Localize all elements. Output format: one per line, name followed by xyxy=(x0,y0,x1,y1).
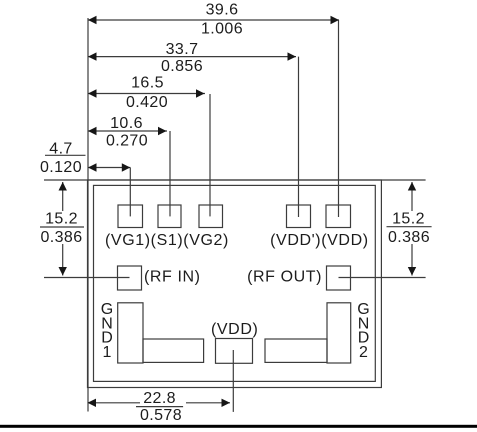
svg-text:33.7: 33.7 xyxy=(166,41,199,58)
svg-text:0.856: 0.856 xyxy=(161,58,203,75)
svg-text:0.578: 0.578 xyxy=(140,407,182,424)
svg-text:15.2: 15.2 xyxy=(392,211,425,228)
svg-text:15.2: 15.2 xyxy=(45,211,78,228)
svg-text:0.120: 0.120 xyxy=(40,159,82,176)
svg-text:0.270: 0.270 xyxy=(106,132,148,149)
svg-text:39.6: 39.6 xyxy=(206,2,239,19)
svg-text:2: 2 xyxy=(359,344,369,361)
svg-text:0.386: 0.386 xyxy=(388,229,430,246)
svg-text:(VG1)(S1)(VG2): (VG1)(S1)(VG2) xyxy=(105,232,229,249)
svg-text:(VDD')(VDD): (VDD')(VDD) xyxy=(270,232,369,249)
svg-text:(RF OUT): (RF OUT) xyxy=(247,269,322,286)
svg-text:(VDD): (VDD) xyxy=(211,321,258,338)
svg-text:(RF IN): (RF IN) xyxy=(144,269,201,286)
svg-text:1.006: 1.006 xyxy=(201,21,243,38)
svg-text:4.7: 4.7 xyxy=(49,140,72,157)
svg-text:1: 1 xyxy=(103,344,113,361)
svg-text:10.6: 10.6 xyxy=(110,115,143,132)
svg-text:0.420: 0.420 xyxy=(126,94,168,111)
svg-text:22.8: 22.8 xyxy=(143,390,176,407)
svg-text:0.386: 0.386 xyxy=(40,229,82,246)
svg-text:16.5: 16.5 xyxy=(131,75,164,92)
